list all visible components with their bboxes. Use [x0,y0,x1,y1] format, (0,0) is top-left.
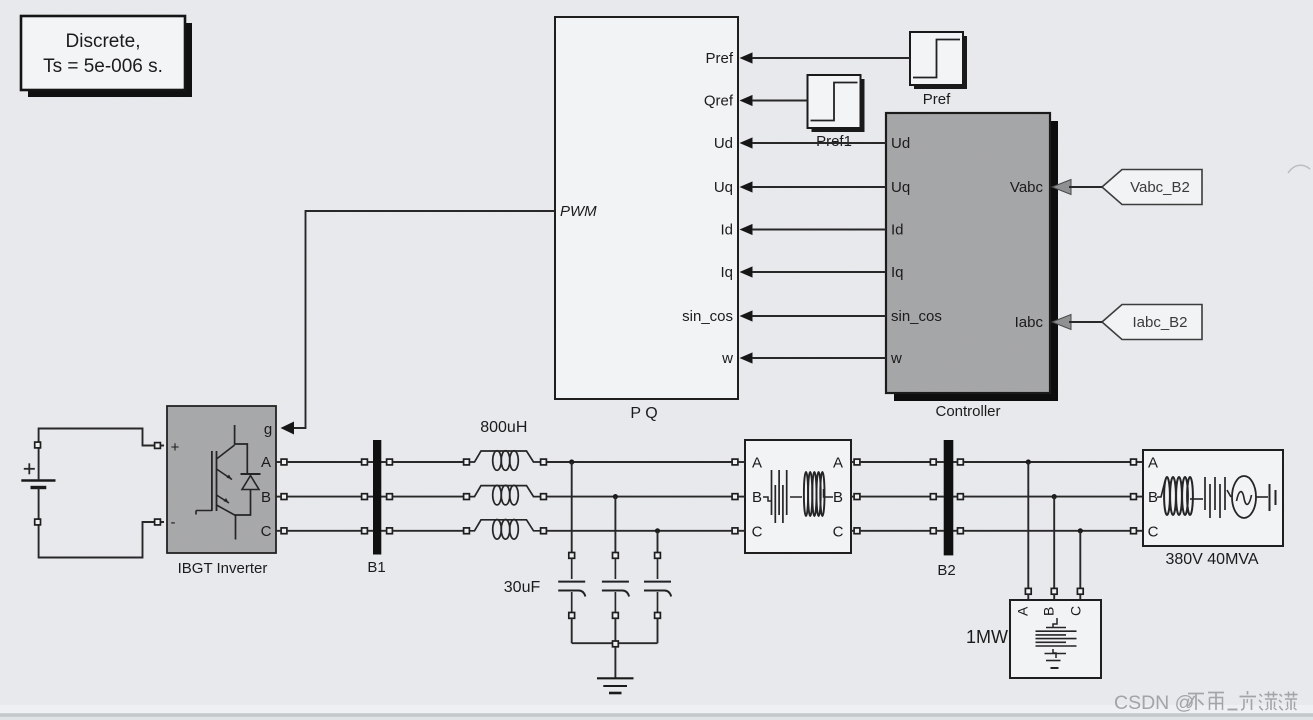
stub B2 bar left C [936,530,944,532]
controller output port label Ud [891,135,910,152]
watermark char bu [1188,694,1204,711]
inductor 800uH phase A coil [470,451,541,471]
stub B2 bar right B [953,496,957,498]
svg-text:Controller: Controller [935,403,1000,420]
load rotated label B [1041,607,1057,616]
stub transformer right edge A [851,461,854,463]
transformer right port A [854,459,860,465]
step source Pref1 shadow [812,79,865,132]
wire inductor C to transformer [547,530,732,532]
svg-text:800uH: 800uH [480,419,527,436]
label 1MW [966,627,1008,647]
transformer right label C [833,523,844,540]
wire cap B to ground bus [614,618,616,643]
load RLC icon [1036,618,1077,668]
svg-text:Discrete,: Discrete, [66,31,141,52]
source inductor winding [1157,477,1193,515]
source port A [1131,459,1137,465]
stub B2 bar left A [936,461,944,463]
watermark char xiao2 [1279,692,1298,711]
junction node A at capacitor tap [569,459,574,464]
wire controller Id to PQ [752,229,886,231]
arrowhead into PQ port Uq [740,181,753,192]
watermark char yi [1240,691,1257,710]
source label B [1148,489,1158,506]
capacitor 30uF phase C symbol [644,558,671,612]
svg-text:380V 40MVA: 380V 40MVA [1165,551,1258,568]
stub transformer right edge B [851,496,854,498]
inductor 800uH phase C right port [541,528,547,534]
svg-text:sin_cos: sin_cos [682,308,733,325]
svg-text:B1: B1 [367,559,385,576]
PQ input port label Pref [705,50,733,67]
svg-text:Iq: Iq [891,264,904,281]
svg-text:Iabc: Iabc [1015,314,1044,331]
svg-text:Vabc_B2: Vabc_B2 [1130,179,1190,196]
stub inverter edge C [276,530,281,532]
wire controller sin_cos to PQ [752,315,886,317]
PQ output port PWM [560,203,597,220]
source label A [1148,455,1158,472]
transformer primary winding [763,470,787,523]
powergui Discrete block shadow [28,23,192,97]
capacitor 30uF phase C top port [655,553,661,559]
stub B2 bar left B [936,496,944,498]
DC voltage source short plate [31,486,47,489]
svg-text:CSDN @: CSDN @ [1114,692,1194,714]
B1 right port C [387,528,393,534]
powergui Discrete block [21,16,185,90]
ground bus wire [572,642,658,644]
B2 left port A [930,459,936,465]
step source Pref [910,32,963,108]
controller output port label w [890,350,902,367]
arrowhead into PQ port sin_cos [740,310,753,321]
load rotated label A [1015,606,1031,616]
PQ input port label Ud [714,135,733,152]
svg-text:C: C [261,523,272,540]
DC source port + [35,442,41,448]
wire Pref step to PQ [752,57,910,59]
PQ input port label Uq [714,179,733,196]
label 30uF [504,579,541,596]
watermark underscore [1228,709,1238,711]
B2 right port A [958,459,964,465]
B1 right port B [387,494,393,500]
transformer left port A [732,459,738,465]
arrowhead into PQ port Qref [740,95,753,106]
scan artifact curve top right [1288,165,1310,173]
B2 left port B [930,494,936,500]
transformer right port B [854,494,860,500]
wire DC+ to inverter [39,429,164,481]
wire load drop C [1079,531,1081,589]
wire controller w to PQ [752,357,886,359]
inductor 800uH phase A left port [464,459,470,465]
svg-text:A: A [1015,606,1031,616]
svg-text:C: C [1148,523,1159,540]
svg-text:B: B [261,489,271,506]
arrowhead into PQ port Pref [740,52,753,63]
arrowhead into PQ port Id [740,224,753,235]
svg-text:Ud: Ud [891,135,910,152]
capacitor 30uF phase B bottom port [613,613,619,619]
wire B1 to inductor A [393,461,464,463]
stub transformer left edge A [738,461,745,463]
capacitor 30uF phase A top port [569,553,575,559]
wire inverter A to B1 [287,461,362,463]
step source Pref1 [808,75,861,150]
source resistive winding [1190,477,1231,518]
wire load port to block A [1027,594,1029,600]
inductor 800uH phase C left port [464,528,470,534]
stub transformer left edge C [738,530,745,532]
wire cap C to ground bus [657,618,659,643]
wire transformer A to B2 [860,461,930,463]
inverter port - square [155,519,161,525]
inverter port + square [155,443,161,449]
controller input port label Vabc [1010,179,1044,196]
svg-text:B: B [1148,489,1158,506]
ground symbol [597,678,634,693]
B1 right port A [387,459,393,465]
svg-text:B: B [752,489,762,506]
transformer left label A [752,455,762,472]
source 380V 40MVA block body [1143,450,1283,568]
wire DC- to inverter [39,488,164,558]
wire cap drop B [614,497,616,553]
svg-text:1MW: 1MW [966,627,1008,647]
controller output port label Iq [891,264,904,281]
PQ input port label w [721,350,733,367]
junction node C at capacitor tap [655,528,660,533]
From tag Vabc_B2 [1102,170,1202,205]
svg-text:C: C [1067,606,1083,616]
bus bar B1 [367,440,385,576]
PQ input port label Qref [704,93,734,110]
source AC generator circle [1232,476,1256,518]
stub B1 bar right A [381,461,387,463]
stub B1 bar right C [381,530,387,532]
transformer secondary winding [790,472,833,516]
wire Vabc_B2 tag to controller [1069,186,1102,188]
arrowhead into controller Vabc [1052,180,1071,195]
junction node load A [1026,459,1031,464]
junction node load C [1078,528,1083,533]
svg-text:B: B [1041,607,1057,616]
inverter label g [264,421,272,438]
controller output port label sin_cos [891,308,942,325]
IGBT symbol inside inverter [196,425,261,540]
load top port B [1051,588,1057,594]
inverter label + [171,439,180,456]
svg-text:Uq: Uq [891,179,910,196]
source internal ground plates [1256,484,1276,511]
svg-text:30uF: 30uF [504,579,541,596]
inductor 800uH phase A right port [541,459,547,465]
capacitor 30uF phase A bottom port [569,613,575,619]
stub B2 bar right C [953,530,957,532]
svg-text:Id: Id [720,222,733,239]
svg-text:Uq: Uq [714,179,733,196]
wire load port to block B [1053,594,1055,600]
stub B2 bar right A [953,461,957,463]
ground bus mid port [613,641,619,647]
svg-text:Iabc_B2: Iabc_B2 [1132,314,1187,331]
svg-text:C: C [752,523,763,540]
stub B1 bar right B [381,496,387,498]
IBGT Inverter block body [167,406,276,577]
label 800uH [480,419,527,436]
svg-text:Qref: Qref [704,93,734,110]
watermark CSDN text [1114,692,1194,714]
PQ input port label Id [720,222,733,239]
wire cap drop C [657,531,659,553]
controller output port label Id [891,222,904,239]
inductor 800uH phase B coil [470,485,541,505]
load top port C [1077,588,1083,594]
inverter output port C square [281,528,287,534]
junction node B at capacitor tap [613,494,618,499]
wire B2 to 380V source B [963,496,1130,498]
svg-text:A: A [833,455,843,472]
svg-text:A: A [261,454,271,471]
bus bar B2 [937,440,955,579]
arrowhead into PQ port Ud [740,137,753,148]
controller U2 shadow [894,121,1058,401]
wire load port to block C [1079,594,1081,600]
step source Pref shadow [914,36,967,89]
wire controller Uq to PQ [752,186,886,188]
B1 left port A [362,459,368,465]
B1 left port B [362,494,368,500]
wire B2 to 380V source A [963,461,1130,463]
svg-text:Ud: Ud [714,135,733,152]
inductor 800uH phase B right port [541,494,547,500]
svg-text:-: - [171,514,176,531]
controller input port label Iabc [1015,314,1044,331]
inductor 800uH phase C coil [470,520,541,540]
watermark char yu [1208,693,1224,711]
subsystem U1 PQ block body [555,17,738,422]
load top port A [1025,588,1031,594]
B2 right port B [958,494,964,500]
inverter output port A square [281,459,287,465]
wire to ground symbol [614,647,616,678]
transformer right label A [833,455,843,472]
B1 left port C [362,528,368,534]
wire controller Ud to PQ [752,142,886,144]
stub transformer left edge B [738,496,745,498]
inverter label - [171,514,176,531]
From tag Iabc_B2 [1102,305,1202,340]
inverter label B [261,489,271,506]
svg-text:w: w [721,350,733,367]
transformer right label B [833,489,843,506]
transformer left label B [752,489,762,506]
wire load drop A [1027,462,1029,588]
stub B1 bar left C [368,530,374,532]
svg-text:IBGT Inverter: IBGT Inverter [178,560,268,577]
arrowhead into inverter g port [281,422,295,435]
DC voltage source plus sign [24,463,35,474]
wire Iabc_B2 tag to controller [1069,321,1102,323]
wire cap A to ground bus [571,618,573,643]
stub source edge B [1137,496,1144,498]
stub source edge A [1137,461,1144,463]
inverter output port B square [281,494,287,500]
stub B1 bar left B [368,496,374,498]
wire transformer B to B2 [860,496,930,498]
wire B1 to inductor C [393,530,464,532]
wire cap drop A [571,462,573,552]
PQ input port label sin_cos [682,308,733,325]
svg-text:B: B [833,489,843,506]
DC voltage source long plate [21,479,55,482]
source label C [1148,523,1159,540]
inverter label A [261,454,271,471]
stub inverter edge B [276,496,281,498]
capacitor 30uF phase C bottom port [655,613,661,619]
svg-text:PWM: PWM [560,203,597,220]
controller output port label Uq [891,179,910,196]
stub B1 bar left A [368,461,374,463]
svg-text:Pref1: Pref1 [816,133,852,150]
B2 left port C [930,528,936,534]
wire inverter B to B1 [287,496,362,498]
watermark char xiao1 [1259,692,1278,711]
svg-text:Iq: Iq [720,264,733,281]
svg-text:B2: B2 [937,562,955,579]
DC source port - [35,519,41,525]
wire PWM from PQ to inverter g [294,211,555,428]
page bottom strip [0,705,1313,720]
svg-text:sin_cos: sin_cos [891,308,942,325]
transformer left port B [732,494,738,500]
transformer right port C [854,528,860,534]
arrowhead into PQ port w [740,352,753,363]
svg-text:g: g [264,421,272,438]
wire load drop B [1053,497,1055,589]
svg-text:P Q: P Q [630,405,657,422]
wire transformer C to B2 [860,530,930,532]
wire B2 to 380V source C [963,530,1130,532]
capacitor 30uF phase B top port [613,553,619,559]
svg-text:Ts = 5e-006 s.: Ts = 5e-006 s. [43,56,163,77]
stub inverter edge A [276,461,281,463]
stub transformer right edge C [851,530,854,532]
three-phase transformer block body [745,440,851,553]
stub source edge C [1137,530,1144,532]
PQ input port label Iq [720,264,733,281]
wire controller Iq to PQ [752,271,886,273]
load rotated label C [1067,606,1083,616]
transformer left port C [732,528,738,534]
arrowhead into PQ port Iq [740,266,753,277]
arrowhead into controller Iabc [1052,315,1071,330]
source port C [1131,528,1137,534]
wire Pref1 step to PQ [752,100,808,102]
svg-text:Pref: Pref [705,50,733,67]
B2 right port C [958,528,964,534]
load 1MW block body [1010,600,1101,678]
inverter label C [261,523,272,540]
inductor 800uH phase B left port [464,494,470,500]
svg-text:+: + [171,439,180,456]
svg-text:w: w [890,350,902,367]
capacitor 30uF phase A symbol [558,558,585,612]
transformer left label C [752,523,763,540]
wire inductor A to transformer [547,461,732,463]
source port B [1131,494,1137,500]
wire B1 to inductor B [393,496,464,498]
svg-text:A: A [752,455,762,472]
controller U2 body [886,113,1050,420]
svg-text:A: A [1148,455,1158,472]
wire inverter C to B1 [287,530,362,532]
wire inductor B to transformer [547,496,732,498]
svg-text:Vabc: Vabc [1010,179,1044,196]
svg-text:Pref: Pref [923,91,951,108]
svg-text:Id: Id [891,222,904,239]
capacitor 30uF phase B symbol [602,558,629,612]
junction node load B [1052,494,1057,499]
svg-text:C: C [833,523,844,540]
